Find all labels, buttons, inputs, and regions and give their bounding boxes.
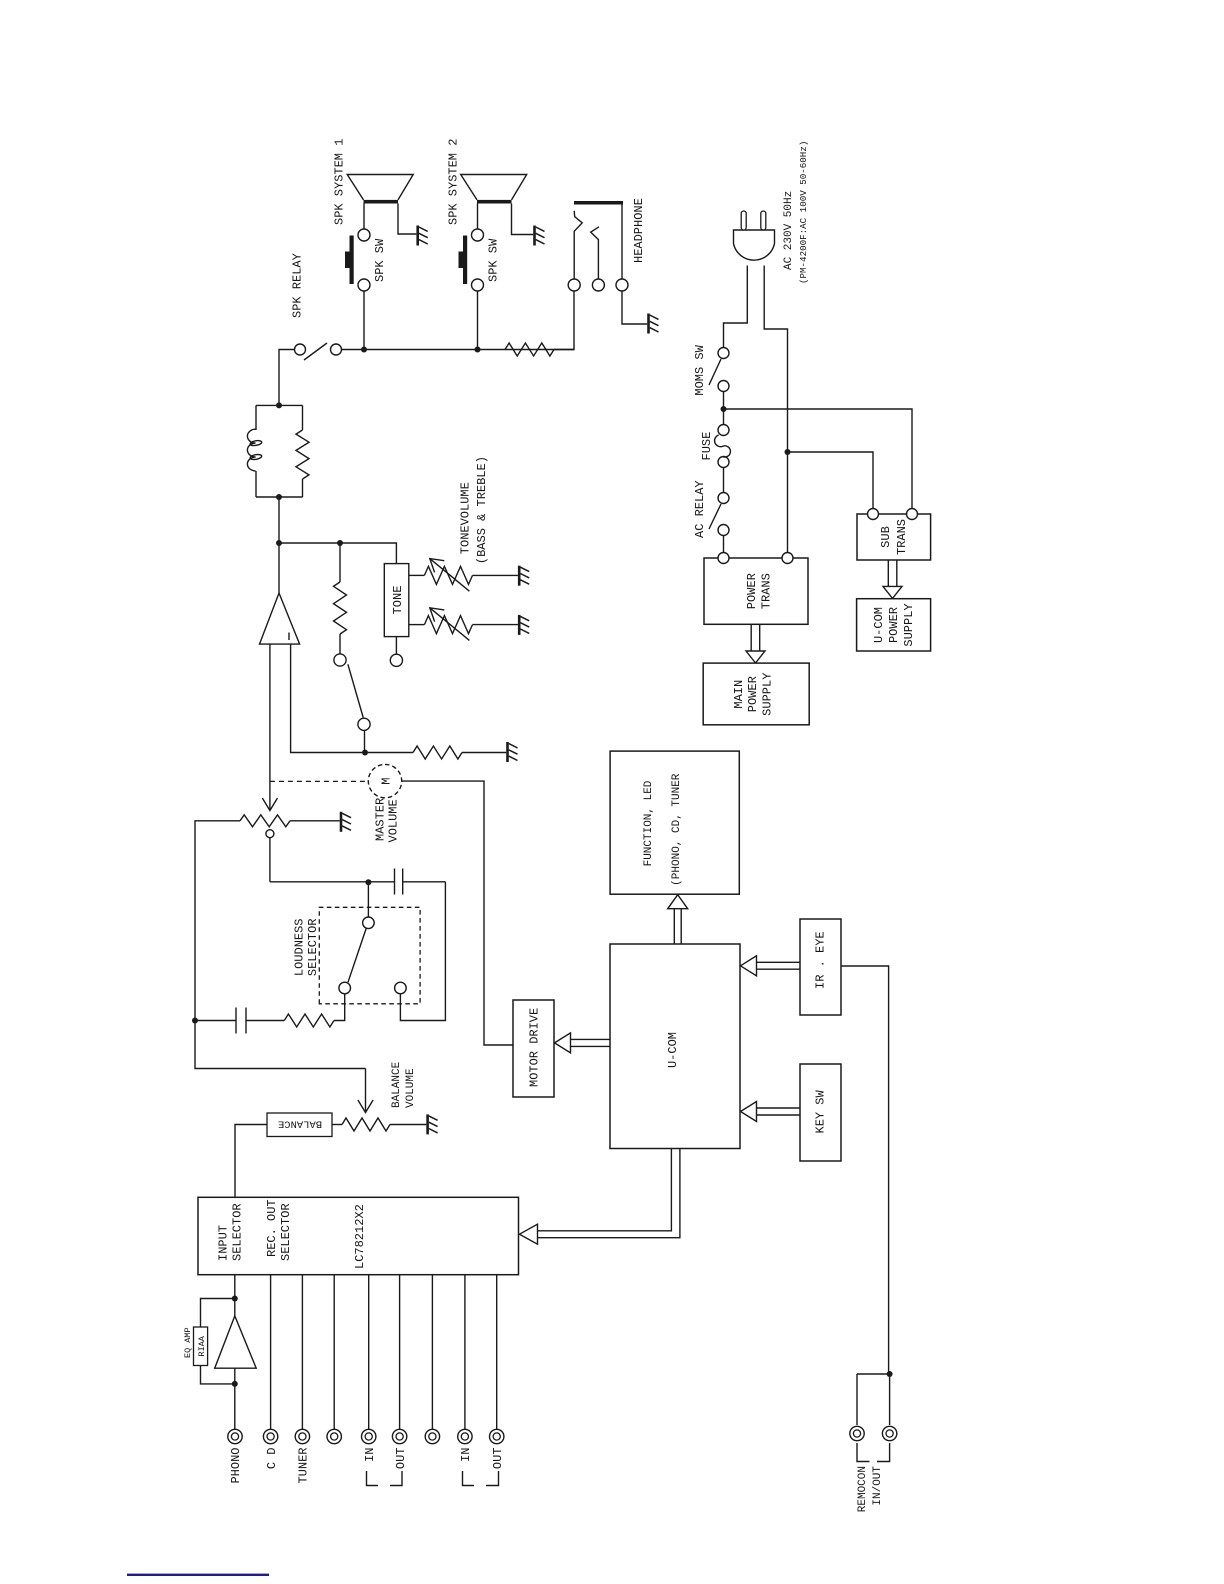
arrow master wiper from amp — [269, 644, 271, 811]
potentiometer balance volume — [342, 1118, 390, 1131]
svg-text:RIAA: RIAA — [197, 1335, 207, 1356]
inductor output coil — [247, 429, 262, 471]
block MOTOR DRIVE box — [513, 1000, 554, 1097]
bracket tape1 OUT — [390, 1471, 402, 1486]
svg-text:TRANS: TRANS — [895, 519, 909, 555]
svg-text:VOLUME: VOLUME — [405, 1068, 417, 1108]
wire lower-left circle path — [400, 882, 445, 1021]
plug AC body — [734, 230, 775, 260]
wire tone pot2 stub — [409, 624, 425, 626]
svg-text:SELECTOR: SELECTOR — [231, 1203, 245, 1261]
plug prong 1 — [741, 211, 746, 230]
switch SPK SW 2 contact A — [472, 279, 484, 291]
wiper circle master volume — [266, 830, 274, 838]
wire vol pot top feed — [195, 821, 366, 1069]
ground balance — [428, 1114, 438, 1134]
wire remocon jack 1 — [856, 1374, 858, 1425]
ground feedback — [508, 742, 518, 762]
ground headphone — [649, 314, 659, 334]
jack remocon 1 — [850, 1426, 864, 1440]
wire jack to selector — [464, 1275, 466, 1430]
node feedback junction — [337, 540, 343, 546]
wire plug line 1 — [724, 266, 748, 348]
svg-text:SUPPLY: SUPPLY — [761, 673, 775, 716]
svg-text:M: M — [380, 777, 394, 784]
svg-text:SPK SW: SPK SW — [487, 238, 501, 282]
svg-text:IR . EYE: IR . EYE — [814, 931, 828, 989]
switch loudness selector common — [363, 917, 375, 929]
wire headphone sleeve — [622, 203, 623, 279]
wire master pot to ground — [290, 820, 340, 822]
svg-text:IN: IN — [459, 1448, 473, 1462]
svg-text:(BASS & TREBLE): (BASS & TREBLE) — [475, 456, 489, 564]
switch SPK SW 1 button bar — [345, 236, 354, 285]
potentiometer master volume — [240, 815, 290, 827]
svg-text:LOUDNESS: LOUDNESS — [293, 918, 307, 976]
wire LC top stub left — [255, 471, 257, 497]
switch MOMS SW contact A — [718, 348, 729, 359]
wire remocon jack 2 — [889, 1374, 891, 1425]
block MAIN POWER SUPPLY box — [703, 663, 809, 725]
block U-COM POWER SUPPLY box — [857, 599, 931, 651]
wire plug line2 to power trans — [787, 451, 790, 453]
arrow ucom to function — [673, 908, 675, 944]
svg-text:AC 230V 50Hz: AC 230V 50Hz — [783, 191, 795, 270]
bracket tape1 IN — [367, 1471, 379, 1486]
minus tick on inverting input — [288, 633, 290, 641]
wire amp out to LC — [278, 497, 280, 543]
svg-text:VOLUME: VOLUME — [387, 799, 401, 842]
component BALANCE box — [267, 1113, 332, 1137]
transformer POWER TRANS box — [704, 558, 808, 624]
wire jack to selector — [333, 1275, 335, 1430]
wire cap to resistor — [246, 1020, 284, 1022]
svg-text:BALANCE: BALANCE — [278, 1118, 322, 1130]
wire LC to relay — [279, 350, 295, 406]
wire junction A down to sub trans — [724, 409, 913, 509]
input jack C D — [263, 1429, 277, 1443]
wire resistor stubs — [365, 752, 506, 754]
wire spk2 to speaker — [477, 204, 479, 230]
svg-text:SELECTOR: SELECTOR — [279, 1203, 293, 1261]
wire remocon jack link — [857, 1373, 890, 1375]
switch MOMS SW contact B — [718, 381, 729, 392]
wire LC left bar — [256, 496, 303, 498]
wire EQ amp output — [234, 1275, 236, 1316]
arrow ucom to motor drive — [571, 1045, 610, 1047]
switch SPK SW 2 contact B — [472, 229, 484, 241]
wire jack to selector — [496, 1275, 498, 1430]
wire feedback top — [201, 1299, 235, 1328]
relay SPK RELAY blade — [304, 343, 327, 360]
wire balance pot to ground — [390, 1124, 426, 1126]
wire spk1 branch — [363, 291, 365, 350]
node loudness chain top — [192, 1018, 198, 1024]
box loudness selector dashed — [319, 907, 420, 1004]
potentiometer tone bass — [424, 566, 472, 584]
wire balance box to pot — [332, 1124, 342, 1126]
wire loudness common stub — [367, 885, 369, 917]
switch feedback blade — [348, 664, 363, 717]
svg-text:SUPPLY: SUPPLY — [902, 603, 916, 646]
block TONE box — [384, 564, 409, 637]
svg-text:MASTER: MASTER — [374, 798, 388, 841]
switch SPK SW 1 contact A — [358, 279, 370, 291]
node LC left junction — [276, 494, 282, 500]
block KEY SW box — [800, 1064, 841, 1161]
wire jack to selector — [399, 1275, 401, 1430]
svg-text:MOMS SW: MOMS SW — [693, 344, 707, 395]
capacitor loudness A — [235, 1008, 237, 1034]
wire tone bus — [279, 543, 396, 564]
IC input selector box LC78212X2 — [198, 1197, 519, 1274]
wire MOMS to junction — [723, 392, 725, 425]
ground master volume — [341, 812, 351, 832]
wire fuse to ac relay — [723, 468, 725, 493]
motor M circle — [368, 764, 401, 797]
svg-text:AC RELAY: AC RELAY — [693, 480, 707, 538]
switch loudness contact upper — [339, 982, 351, 994]
op-amp power amp triangle — [260, 593, 300, 644]
jack remocon 2 — [882, 1426, 896, 1440]
svg-text:SELECTOR: SELECTOR — [306, 918, 320, 976]
arrow tone treble wiper — [430, 608, 470, 641]
transformer SUB TRANS box — [857, 514, 931, 560]
svg-text:OUT: OUT — [491, 1448, 505, 1470]
input jack IN — [362, 1429, 376, 1443]
svg-text:BALANCE: BALANCE — [391, 1061, 403, 1108]
arrow sub trans to ucom supply — [887, 560, 889, 590]
wire motor to motor drive — [402, 781, 513, 1045]
wire LC bottom stub right — [302, 405, 304, 430]
input jack unlabeled — [327, 1429, 341, 1443]
wire bus X702 lower — [403, 881, 446, 883]
wire tone treble to ground — [473, 624, 518, 626]
svg-text:EQ AMP: EQ AMP — [183, 1327, 193, 1358]
svg-text:SUB: SUB — [879, 526, 893, 548]
input jack OUT — [392, 1429, 406, 1443]
svg-text:U-COM: U-COM — [872, 607, 886, 643]
input jack unlabeled — [425, 1429, 439, 1443]
contact headphone circle1 — [568, 279, 580, 291]
bracket tape2 IN — [463, 1471, 475, 1486]
wire LC right bar — [256, 404, 303, 406]
node spk1 junction — [361, 347, 367, 353]
input jack OUT — [490, 1429, 504, 1443]
svg-text:IN: IN — [363, 1448, 377, 1462]
contact headphone circle2 — [592, 279, 604, 291]
resistor loudness — [284, 1014, 334, 1027]
wire jack to selector — [270, 1275, 272, 1430]
wire cap chain upper — [195, 1020, 236, 1022]
resistor LC damping — [296, 430, 309, 479]
input jack IN — [458, 1429, 472, 1443]
resistor feedback — [334, 582, 347, 634]
wire feedback right — [339, 543, 341, 582]
relay AC RELAY blade — [709, 504, 721, 529]
wire plug line 2 — [764, 266, 787, 553]
block U-COM box — [610, 944, 740, 1149]
svg-text:C D: C D — [265, 1448, 279, 1470]
wire junction B to sub trans — [788, 452, 874, 509]
svg-text:PHONO: PHONO — [229, 1448, 243, 1484]
svg-text:(PM-4200F:AC 100V 50-60Hz): (PM-4200F:AC 100V 50-60Hz) — [798, 141, 809, 284]
wire tone bass to ground — [473, 574, 518, 576]
bracket remocon top — [857, 1443, 870, 1462]
contact headphone circle3 — [616, 279, 628, 291]
svg-text:MOTOR DRIVE: MOTOR DRIVE — [528, 1008, 542, 1087]
node feedback ground junction — [362, 750, 368, 756]
terminal sub trans 2 — [907, 509, 918, 520]
relay SPK RELAY contact B — [331, 344, 342, 355]
block FUNCTION LED box — [610, 751, 739, 894]
contact headphone tip — [574, 211, 582, 279]
node power junction A — [721, 406, 727, 412]
switch SPK SW 1 contact B — [358, 229, 370, 241]
svg-text:POWER: POWER — [745, 573, 759, 609]
switch MOMS SW blade — [709, 359, 721, 385]
jack headphone sleeve bar — [574, 201, 623, 205]
ground tone treble — [519, 615, 529, 635]
svg-text:POWER: POWER — [746, 676, 760, 712]
node loudness top junction — [365, 879, 371, 885]
wire ac relay to power trans — [723, 536, 725, 559]
node amp output junction — [276, 540, 282, 546]
arrow ir eye to ucom — [757, 968, 800, 970]
svg-text:POWER: POWER — [887, 607, 901, 643]
ground speaker1 — [418, 226, 428, 246]
wire bus X702 upper — [270, 881, 395, 883]
ground speaker2 — [535, 226, 545, 246]
node remocon junction — [887, 1371, 893, 1377]
potentiometer tone treble — [424, 616, 472, 634]
terminal tone stub circle — [390, 654, 402, 666]
node EQ input junction — [232, 1381, 238, 1387]
resistor to ground — [413, 746, 462, 759]
wire amp output — [278, 543, 280, 593]
block IR EYE box — [800, 919, 841, 1015]
relay AC RELAY contact A — [718, 493, 729, 504]
relay AC RELAY contact B — [718, 525, 729, 536]
svg-text:SPK RELAY: SPK RELAY — [291, 253, 305, 318]
wire ir eye to remocon — [841, 966, 889, 1374]
arrow trans to main supply — [750, 624, 752, 654]
arrow balance wiper — [365, 1069, 367, 1113]
wire spk2 branch — [477, 291, 479, 350]
terminal sub trans 1 — [868, 509, 879, 520]
node EQ output junction — [232, 1296, 238, 1302]
node power junction B — [785, 449, 791, 455]
wire feedback to circle — [339, 634, 341, 655]
contact headphone ring — [591, 227, 599, 280]
svg-text:FUNCTION, LED: FUNCTION, LED — [643, 780, 655, 866]
wire tone pot1 stub — [409, 574, 425, 576]
switch feedback contact A — [334, 654, 346, 666]
wire tone stub — [395, 637, 397, 655]
switch SPK SW 2 button bar — [459, 236, 468, 285]
switch feedback contact B — [358, 718, 370, 730]
wire feedback return — [291, 644, 365, 752]
switch loudness contact lower — [395, 982, 407, 994]
speaker SPK SYSTEM 1 — [347, 175, 413, 204]
wire jack to selector — [301, 1275, 303, 1430]
relay SPK RELAY contact A — [295, 344, 306, 355]
svg-text:HEADPHONE: HEADPHONE — [632, 198, 646, 263]
switch loudness blade — [348, 928, 366, 982]
node LC right junction — [276, 402, 282, 408]
svg-text:REC. OUT: REC. OUT — [265, 1199, 279, 1257]
svg-text:U-COM: U-COM — [666, 1032, 680, 1068]
svg-text:SPK SYSTEM 1: SPK SYSTEM 1 — [333, 139, 347, 225]
wire jack to selector — [368, 1275, 370, 1430]
svg-text:KEY SW: KEY SW — [814, 1089, 828, 1133]
node spk2 junction — [475, 347, 481, 353]
wire selector to balance box — [235, 1125, 267, 1198]
wire resistor to switch circle — [334, 994, 345, 1021]
footer line — [127, 1574, 269, 1576]
svg-text:SPK SW: SPK SW — [373, 238, 387, 282]
svg-text:REMOCON: REMOCON — [857, 1466, 869, 1512]
ground tone bass — [519, 566, 529, 586]
capacitor loudness B — [394, 869, 396, 895]
wire speaker1 to ground — [398, 204, 416, 235]
arrow ucom to selector — [537, 1149, 671, 1231]
wire spk1 to speaker — [363, 204, 365, 230]
resistor RIAA box — [194, 1327, 208, 1366]
wire wiper to loudness bus — [269, 838, 271, 882]
arrow tone bass wiper — [430, 559, 470, 592]
input jack PHONO — [228, 1429, 242, 1443]
svg-text:SPK SYSTEM 2: SPK SYSTEM 2 — [447, 139, 461, 225]
wire headphone feed — [554, 291, 574, 350]
speaker SPK SYSTEM 2 — [461, 175, 527, 204]
plug prong 2 — [761, 211, 766, 230]
svg-text:TUNER: TUNER — [297, 1448, 311, 1484]
svg-text:(PHONO, CD, TUNER: (PHONO, CD, TUNER — [671, 773, 683, 886]
svg-text:INPUT: INPUT — [217, 1225, 231, 1261]
wire headphone ground path — [622, 291, 647, 324]
wire dashed motor link — [270, 780, 368, 782]
bracket tape2 OUT — [486, 1471, 499, 1486]
input jack TUNER — [295, 1429, 309, 1443]
arrow key sw to ucom — [757, 1114, 800, 1116]
svg-text:TRANS: TRANS — [760, 573, 774, 609]
svg-text:LC78212X2: LC78212X2 — [353, 1204, 367, 1269]
svg-text:MAIN: MAIN — [732, 680, 746, 709]
wire LC top stub right — [255, 405, 257, 430]
op-amp EQ AMP triangle — [215, 1316, 257, 1368]
svg-text:FUSE: FUSE — [700, 432, 714, 461]
wire feedback bottom — [201, 1366, 235, 1384]
terminal power trans 1 — [718, 553, 729, 564]
svg-text:OUT: OUT — [394, 1448, 408, 1470]
resistor headphone — [505, 343, 554, 356]
wire PHONO jack to EQ node — [234, 1368, 236, 1429]
wire relay to speakers bus — [342, 349, 575, 351]
svg-text:TONE: TONE — [391, 586, 405, 615]
fuse FUSE — [718, 425, 729, 436]
wire jack to selector — [431, 1275, 433, 1430]
svg-text:IN/OUT: IN/OUT — [872, 1466, 884, 1506]
wire LC bottom stub left — [302, 479, 304, 497]
terminal power trans 2 — [782, 553, 793, 564]
wire speaker2 to ground — [512, 204, 534, 235]
bracket remocon bottom — [877, 1443, 890, 1462]
svg-text:TONEVOLUME: TONEVOLUME — [459, 482, 473, 554]
